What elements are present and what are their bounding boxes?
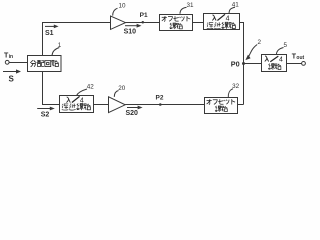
wire Tin to distribution circuit — [9, 62, 27, 64]
terminal Tin — [5, 60, 9, 64]
label Tout — [292, 54, 305, 62]
amplifier 10 — [111, 16, 126, 29]
label S — [9, 75, 15, 84]
leader line for 5 — [276, 48, 283, 55]
quarter wave line 5 — [262, 55, 287, 72]
svg-text:in: in — [9, 54, 13, 60]
text λ/4 — [265, 56, 279, 62]
signal arrow S10 — [125, 24, 142, 28]
label S2 — [41, 112, 50, 119]
svg-text:20: 20 — [118, 85, 126, 92]
distribution circuit 1 — [28, 56, 62, 72]
text 線路 — [215, 106, 227, 112]
svg-text:31: 31 — [186, 2, 194, 9]
svg-text:P0: P0 — [231, 60, 240, 69]
svg-text:10: 10 — [118, 3, 126, 10]
text λ/4 — [66, 96, 79, 102]
delay line 42 — [60, 96, 94, 113]
label S10 — [124, 29, 137, 36]
ref label 2 — [258, 39, 262, 46]
wire amp10 to offset line 31 — [126, 22, 160, 24]
svg-text:out: out — [296, 55, 304, 61]
leader line for 32 — [228, 89, 233, 98]
text λ/4 — [212, 14, 225, 20]
signal arrow S2 — [37, 107, 55, 111]
label P0 — [231, 60, 240, 69]
svg-text:S2: S2 — [41, 112, 50, 119]
wire P0 to line 5 — [244, 63, 262, 65]
wire riser to bottom branch — [43, 72, 60, 105]
svg-text:32: 32 — [232, 83, 240, 90]
svg-text:2: 2 — [258, 39, 262, 46]
leader line for 1 — [52, 48, 59, 56]
ref label 42 — [87, 83, 95, 90]
node P0 — [242, 62, 245, 65]
text オフセット — [206, 99, 235, 104]
offset line 32 — [205, 98, 238, 114]
ref label 10 — [118, 3, 126, 10]
svg-text:P1: P1 — [140, 12, 148, 19]
text 遅延線路 — [62, 104, 91, 111]
svg-text:42: 42 — [87, 83, 95, 90]
offset line 31 — [160, 15, 193, 31]
signal arrow S1 — [45, 25, 59, 29]
wire 42 to amp20 — [94, 104, 109, 106]
text 分配回路 — [30, 60, 58, 67]
wire 31 to 41 — [193, 22, 204, 24]
label Tin — [4, 53, 13, 61]
wire riser to top branch — [43, 23, 111, 56]
ref label 41 — [232, 2, 240, 9]
signal arrow S — [3, 69, 21, 73]
leader line for 42 — [77, 89, 88, 96]
delay line 41 — [204, 14, 240, 30]
leader line for 20 — [114, 91, 118, 97]
ref label 1 — [58, 42, 62, 49]
label P2 — [156, 95, 164, 102]
svg-text:P2: P2 — [156, 95, 164, 102]
wire line 5 to Tout — [287, 63, 302, 65]
svg-text:5: 5 — [283, 42, 287, 49]
ref arrow 2 — [245, 45, 257, 61]
ref label 20 — [118, 85, 126, 92]
wire 32 to riser — [238, 104, 244, 106]
svg-text:S: S — [9, 75, 15, 84]
svg-text:S1: S1 — [45, 30, 54, 37]
leader line for 31 — [180, 7, 187, 13]
text オフセット — [162, 16, 191, 21]
wire amp20 to offset line 32 — [125, 104, 204, 106]
svg-text:S20: S20 — [125, 110, 138, 117]
svg-text:4: 4 — [226, 16, 230, 23]
label S20 — [125, 110, 138, 117]
svg-text:4: 4 — [279, 57, 283, 64]
text 線路 — [268, 64, 281, 70]
node P1 — [142, 21, 145, 24]
node P2 — [159, 103, 162, 106]
wire 41 to riser and down to P0 — [240, 23, 244, 105]
ref label 31 — [186, 2, 194, 9]
label S1 — [45, 30, 54, 37]
ref label 32 — [232, 83, 240, 90]
text 線路 — [170, 23, 183, 29]
ref label 5 — [283, 42, 287, 49]
svg-text:S10: S10 — [124, 29, 137, 36]
terminal Tout — [302, 62, 306, 66]
label P1 — [140, 12, 148, 19]
signal arrow S20 — [127, 106, 143, 110]
text 遅延線路 — [207, 22, 236, 29]
leader line for 10 — [113, 8, 118, 15]
amplifier 20 — [109, 97, 126, 113]
leader line for 41 — [229, 7, 235, 13]
